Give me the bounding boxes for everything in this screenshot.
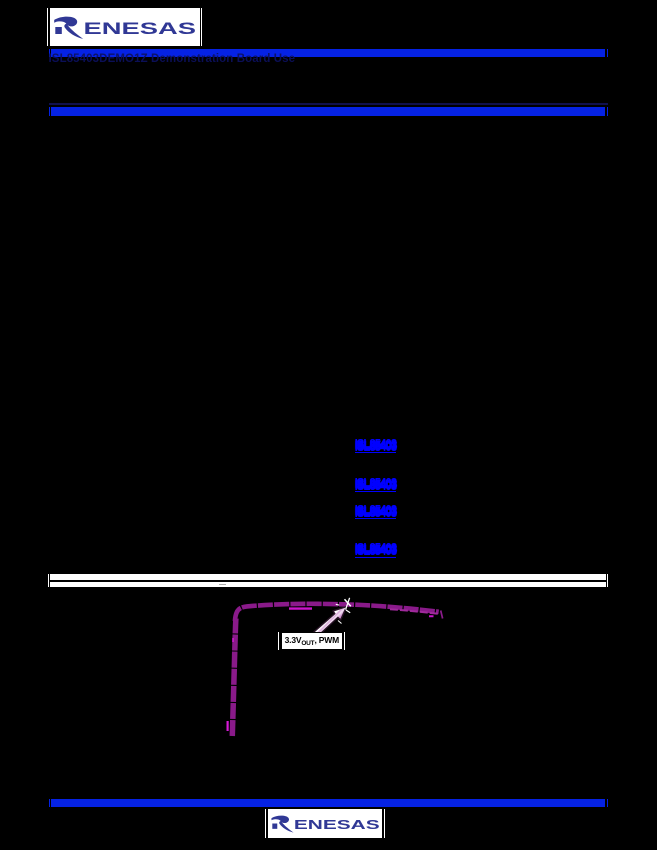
svg-text:ENESAS: ENESAS — [293, 817, 379, 832]
svg-text:ENESAS: ENESAS — [84, 19, 197, 38]
